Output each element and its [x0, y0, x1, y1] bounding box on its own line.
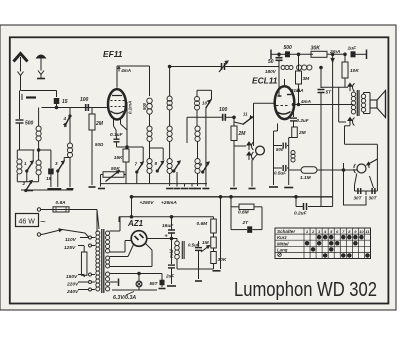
- arc top: [349, 84, 351, 91]
- ground bars mid: [174, 188, 181, 190]
- transformer primary: [96, 231, 100, 235]
- wire osc ground column: [205, 108, 207, 186]
- svg-text:50Ω: 50Ω: [95, 142, 104, 147]
- svg-text:Kurz: Kurz: [277, 235, 288, 240]
- svg-text:2uF: 2uF: [165, 274, 174, 279]
- ground rail left: [21, 189, 73, 191]
- box 46W: [16, 214, 39, 227]
- wire node: [56, 104, 58, 108]
- capacitor 500 tone: [274, 145, 283, 147]
- wire OT top: [321, 86, 348, 88]
- B+ rail +250V: [132, 196, 333, 198]
- svg-text:500: 500: [25, 121, 34, 127]
- wire pickup loop outer: [342, 169, 345, 172]
- svg-text:+26mA: +26mA: [161, 200, 177, 206]
- svg-text:500: 500: [284, 45, 293, 51]
- resistor 2M grid leak: [91, 108, 93, 115]
- svg-text:Mittel: Mittel: [277, 241, 289, 246]
- svg-text:0.1uF: 0.1uF: [110, 132, 124, 138]
- terminal mains 2 with switch: [37, 233, 40, 236]
- svg-text:11: 11: [243, 112, 248, 117]
- stub ECL11 top: [284, 79, 286, 87]
- svg-text:~: ~: [40, 217, 46, 228]
- terminal bar: [366, 50, 368, 60]
- wire AZ1 plates: [110, 251, 125, 253]
- wire L2 junction: [39, 149, 51, 151]
- wire bus to ground rail: [100, 177, 102, 187]
- terminal mains 1: [37, 208, 40, 211]
- wire ECL11 pentode anode to OT: [294, 104, 353, 106]
- switch 1: [27, 161, 33, 171]
- speaker: [363, 93, 365, 95]
- capacitor 0.5uF tone: [274, 167, 283, 169]
- resistor 2M (ECL11 grid): [233, 117, 235, 126]
- svg-text:110V: 110V: [65, 237, 77, 243]
- svg-text:55T: 55T: [150, 281, 159, 286]
- wire pickup bottom line: [355, 190, 378, 192]
- heater tap terminal: [110, 281, 118, 283]
- switch 11: [234, 122, 243, 124]
- transformer secondary 6.3V: [106, 272, 110, 276]
- trimmer cap: [21, 94, 23, 98]
- svg-text:15: 15: [46, 176, 52, 181]
- svg-text:0.6M: 0.6M: [197, 221, 209, 227]
- ground drop: [198, 269, 200, 279]
- switch 7: [137, 162, 143, 172]
- wire mystery drop: [338, 87, 340, 122]
- tube EF11: [108, 89, 126, 119]
- svg-text:10: 10: [359, 229, 364, 234]
- capacitor 1uF: [351, 52, 355, 57]
- pilot lamp: [110, 273, 162, 275]
- svg-text:30K: 30K: [311, 46, 322, 52]
- svg-text:10K: 10K: [350, 68, 359, 74]
- capacitor 15: [54, 99, 59, 104]
- capacitor 5T: [320, 67, 322, 88]
- svg-text:1uF: 1uF: [348, 46, 358, 52]
- resistor 1.1M: [301, 167, 317, 173]
- switch 8: [157, 161, 163, 171]
- svg-text:100: 100: [80, 97, 89, 103]
- svg-text:30T: 30T: [354, 196, 363, 201]
- svg-text:1.1M: 1.1M: [300, 175, 312, 181]
- resistor 3M: [296, 71, 302, 84]
- capacitor 100 (osc): [222, 114, 224, 121]
- svg-text:3: 3: [55, 161, 58, 166]
- wire EF11 anode: [116, 66, 118, 88]
- svg-text:0.6M: 0.6M: [238, 210, 250, 216]
- wire top line to divider: [213, 217, 215, 219]
- wire input bus: [42, 107, 109, 109]
- border frame: [10, 37, 389, 303]
- svg-text:9: 9: [200, 162, 203, 167]
- svg-text:Lumophon WD 302: Lumophon WD 302: [234, 279, 377, 301]
- svg-text:180V: 180V: [265, 69, 277, 74]
- svg-text:8: 8: [155, 161, 158, 166]
- wire sw7 link: [142, 147, 144, 162]
- transformer secondary HT: [106, 231, 110, 235]
- svg-text:Feld: Feld: [169, 249, 174, 258]
- svg-text:1M: 1M: [202, 240, 210, 246]
- svg-text:30K: 30K: [218, 257, 227, 263]
- capacitor 50: [276, 57, 283, 59]
- wire HT to AZ1: [110, 230, 120, 232]
- svg-text:46 W: 46 W: [19, 219, 36, 226]
- svg-text:4mA: 4mA: [300, 99, 311, 104]
- wire L1 top: [17, 149, 34, 151]
- wire ECL11 grid line: [254, 102, 275, 104]
- wire osc lower: [187, 116, 223, 118]
- oscillator coil: [197, 89, 212, 91]
- svg-text:240V: 240V: [66, 289, 79, 295]
- wire B+ drop: [220, 197, 222, 269]
- wire 0.2uF top: [308, 206, 333, 208]
- svg-text:150V: 150V: [66, 274, 78, 280]
- resistor 10K: [344, 54, 346, 62]
- capacitor 30T left: [357, 188, 359, 194]
- capacitor 500 (antenna): [16, 119, 24, 121]
- trimmer cap top: [219, 66, 222, 68]
- pickup circle: [357, 164, 366, 173]
- transformer secondary mid: [106, 256, 110, 260]
- coil L2 lower: [36, 160, 41, 165]
- ground divider: [213, 270, 221, 272]
- IF T1 secondary lower: [149, 142, 151, 149]
- wire AVC top: [170, 66, 219, 68]
- svg-text:0.2uF: 0.2uF: [297, 118, 309, 123]
- svg-text:0.2uF: 0.2uF: [294, 211, 308, 217]
- IF coils horizontal 030/500: [278, 63, 280, 67]
- switch 3: [58, 161, 64, 171]
- svg-text:2M: 2M: [298, 130, 307, 136]
- svg-text:0.8A: 0.8A: [56, 200, 67, 206]
- svg-text:2T: 2T: [242, 220, 250, 226]
- ballast resistor: [81, 252, 87, 275]
- svg-text:100: 100: [219, 107, 228, 113]
- pickup wiper: [367, 159, 378, 165]
- svg-text:220V: 220V: [66, 282, 79, 288]
- coil column2 lower: [167, 159, 172, 164]
- antenna A2 (short): [37, 55, 46, 58]
- svg-text:Lang: Lang: [277, 247, 288, 252]
- svg-text:125V: 125V: [64, 245, 76, 251]
- coil L2 upper: [36, 126, 41, 131]
- switch 4: [69, 108, 71, 117]
- label trimmer feedback: [167, 96, 172, 101]
- transformer core: [101, 229, 103, 293]
- svg-text:6.3V/0.3A: 6.3V/0.3A: [113, 295, 136, 301]
- resistor 30K: [311, 51, 327, 57]
- resistor 2M output grid: [292, 127, 298, 138]
- tube ECL11: [275, 86, 295, 119]
- wire antenna to input: [21, 90, 57, 92]
- wire 2mA drop: [332, 54, 334, 206]
- resistor 0.6M horizontal: [239, 204, 254, 210]
- tuning indicator: [234, 145, 246, 147]
- svg-text:2: 2: [22, 181, 26, 186]
- wire EF11 cathode: [113, 119, 115, 126]
- svg-text:50: 50: [268, 59, 274, 65]
- capacitor 100 (grid): [85, 104, 87, 111]
- wire ECL11 cathode pins: [277, 124, 279, 132]
- wire L1 bottom: [17, 181, 38, 183]
- capacitor 500 top: [286, 52, 290, 57]
- svg-text:EF11: EF11: [103, 49, 123, 59]
- svg-text:2M: 2M: [238, 131, 247, 137]
- IF transformer T1 primary: [149, 66, 151, 96]
- svg-text:4: 4: [63, 116, 67, 121]
- antenna A1: [14, 54, 28, 62]
- svg-text:Schalter: Schalter: [277, 229, 295, 234]
- switch table Schalter: [275, 228, 371, 259]
- back bias line: [177, 268, 214, 270]
- wire heater bottom: [112, 289, 157, 291]
- capacitor 2uF: [168, 264, 175, 266]
- output transformer windings: [351, 92, 355, 96]
- coil tone: [288, 138, 290, 169]
- wire ECL11 triode anode: [278, 60, 280, 96]
- svg-text:15: 15: [62, 99, 68, 105]
- svg-text:AZ1: AZ1: [127, 219, 144, 228]
- switch 9: [203, 162, 209, 172]
- svg-text:2mA: 2mA: [329, 49, 341, 55]
- wire AZ1 filament: [110, 256, 128, 258]
- wire AZ1 cathode: [147, 238, 172, 240]
- svg-text:500: 500: [276, 147, 284, 152]
- switch 2: [26, 181, 32, 191]
- svg-text:15K: 15K: [114, 155, 123, 161]
- svg-text:2M: 2M: [95, 121, 104, 127]
- svg-text:10: 10: [202, 101, 208, 106]
- capacitor 30T right: [371, 188, 373, 194]
- svg-text:0.1mA: 0.1mA: [128, 101, 133, 114]
- wire loop link: [365, 191, 367, 195]
- switch 10: [211, 90, 213, 99]
- svg-text:ECL11: ECL11: [252, 76, 278, 86]
- taps: [89, 236, 92, 239]
- top rail H1: [271, 53, 285, 55]
- wire AZ1 section top: [119, 216, 214, 218]
- svg-text:3M: 3M: [303, 76, 311, 82]
- svg-text:16uF: 16uF: [162, 223, 174, 229]
- svg-text:4mA: 4mA: [120, 68, 131, 73]
- svg-text:1: 1: [24, 161, 27, 166]
- coil L3: [67, 143, 72, 148]
- svg-text:500: 500: [142, 102, 147, 110]
- svg-text:7: 7: [135, 162, 138, 167]
- svg-text:30T: 30T: [369, 196, 378, 201]
- arc bottom: [349, 119, 351, 126]
- wire column2: [169, 67, 171, 97]
- svg-text:0.5uF: 0.5uF: [274, 171, 286, 176]
- capacitor 15 (second): [50, 150, 52, 168]
- svg-text:+250V: +250V: [140, 200, 155, 206]
- capacitor 0.2uF coupling: [293, 105, 295, 118]
- wire OT bottom route: [345, 125, 351, 127]
- wire EF11 screen: [126, 101, 127, 103]
- coil L1: [17, 159, 22, 164]
